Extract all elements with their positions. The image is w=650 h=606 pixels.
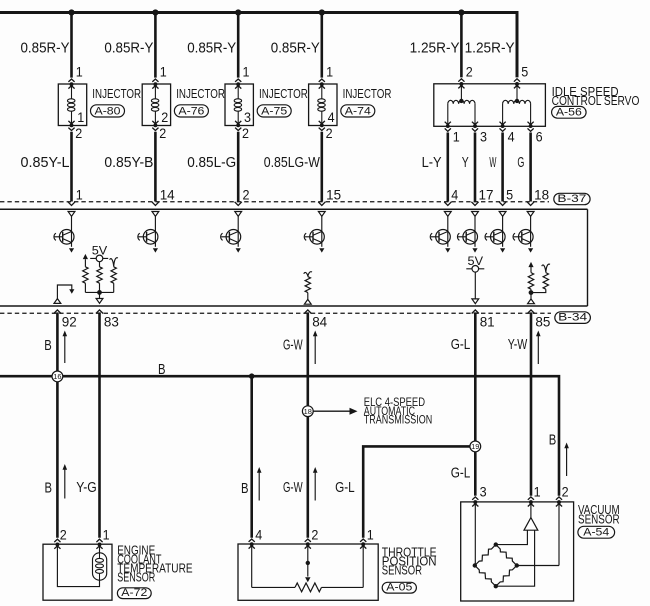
label G-L upper (451, 336, 471, 353)
pin 1 injector 4 top (326, 65, 333, 80)
wire 0.85R-Y to injector 4 (320, 13, 323, 78)
servo pin 2 entry (458, 79, 464, 103)
resistor bridge bottom-right (496, 566, 517, 587)
wire 0.85L-G injector 3 to ECU (237, 132, 240, 202)
label ELC 4-SPEED AUTOMATIC TRANSMISSION (364, 397, 432, 426)
pin 84 B-34 (312, 314, 327, 329)
pin 3 vacuum label (480, 484, 487, 499)
svg-text:A-76: A-76 (178, 105, 204, 117)
thermistor coil (96, 553, 104, 580)
svg-text:0.85R-Y: 0.85R-Y (187, 39, 236, 56)
engine coolant temperature sensor A-72 box (43, 544, 112, 600)
servo bottom pin exit x=530.6 (528, 122, 534, 132)
wire B to TPS pin 4 (250, 376, 253, 538)
label 0.85Y-B (104, 154, 153, 171)
resistor R4 (pin 84) (305, 277, 310, 300)
wire TPS internal right (322, 546, 364, 588)
B-37 pin arrow 8 (527, 202, 534, 206)
label INJECTOR 1 (92, 86, 141, 101)
wire W servo to ECU (501, 133, 504, 202)
ECU box top edge (0, 208, 588, 210)
wire Y-W pin 85 to vacuum sensor (530, 312, 533, 495)
connector row B-37 dashed line (0, 201, 549, 203)
node resistor pair junction (529, 290, 534, 295)
continuation arrow above R5 (528, 262, 533, 267)
label W (489, 154, 496, 171)
node bus junction 3 (235, 9, 241, 15)
connector ref A-56 (552, 106, 587, 118)
pin 2 TPS label (311, 528, 318, 543)
injector coil L2 (151, 99, 159, 111)
wire G-L junction19 to TPS pin 1 (363, 446, 470, 537)
svg-text:1: 1 (367, 528, 374, 543)
transistor Q1 (54, 216, 74, 252)
svg-text:A-54: A-54 (583, 527, 609, 539)
transistor Q7 (485, 216, 505, 252)
svg-text:1: 1 (326, 65, 333, 80)
svg-text:SENSOR: SENSOR (117, 571, 155, 585)
ECU box right edge (587, 209, 589, 306)
svg-text:1: 1 (453, 129, 460, 144)
wire B ground bus horizontal (0, 376, 559, 496)
svg-text:G-L: G-L (451, 465, 471, 482)
svg-text:6: 6 (536, 129, 543, 144)
svg-text:84: 84 (312, 314, 327, 329)
wire 5V to pin 81 (474, 272, 476, 299)
wire B pin 92 to junction 16 (56, 312, 59, 371)
svg-text:B-37: B-37 (557, 193, 586, 205)
svg-text:18: 18 (534, 188, 549, 203)
arrow up beside G-W (313, 331, 318, 365)
pin 4 TPS label (255, 528, 262, 543)
wire amp input left to bridge top (496, 530, 528, 544)
label 0.85Y-L (21, 154, 70, 171)
connector ref A-74 (341, 105, 375, 118)
svg-text:85: 85 (535, 314, 550, 329)
node bus junction 4 (319, 9, 325, 15)
pin 2 servo top (466, 65, 473, 80)
svg-text:5V: 5V (92, 246, 108, 258)
wire G-W junction18 to TPS pin 2 (306, 416, 309, 537)
label INJECTOR 3 (259, 86, 308, 101)
pin 4 injector cylinder no. (328, 110, 335, 125)
TPS pin 4 entry (249, 539, 255, 549)
pin 4 B-37 (451, 188, 458, 203)
pin 2 ECT label (60, 528, 67, 543)
vacuum pin 3 entry (472, 497, 478, 507)
svg-text:G-W: G-W (283, 337, 303, 354)
ECT pin 1 entry (96, 539, 102, 549)
svg-text:INJECTOR: INJECTOR (259, 86, 308, 101)
node bridge left (473, 563, 477, 567)
wire Y-G pin 83 down (98, 312, 101, 537)
node junction 18 (302, 406, 313, 417)
svg-text:17: 17 (479, 188, 494, 203)
pin 17 B-37 (479, 188, 494, 203)
B-37 pin arrow 7 (499, 202, 506, 206)
node junction dot TPS ground (249, 373, 255, 379)
wire G-L junction19 to vacuum pin 3 (474, 452, 477, 496)
pin 1 B-37 (76, 188, 83, 203)
svg-text:2: 2 (311, 528, 318, 543)
resistor bridge bottom-left (475, 566, 496, 587)
B-34 pin arrow 92 (54, 310, 61, 314)
pin 1 injector 1 top (76, 65, 83, 80)
svg-text:2: 2 (60, 528, 67, 543)
resistor TPS track (295, 583, 322, 592)
svg-text:1: 1 (103, 528, 110, 543)
pin 5 servo top (521, 65, 528, 80)
svg-text:B: B (549, 432, 557, 449)
label B (ground bus) (158, 361, 166, 378)
label INJECTOR 4 (343, 86, 392, 101)
svg-text:0.85R-Y: 0.85R-Y (104, 39, 153, 56)
B-34 pin arrow 85 (527, 310, 534, 314)
pin 2 injector 2 bottom (159, 126, 166, 141)
svg-text:0.85R-Y: 0.85R-Y (271, 39, 320, 56)
vacuum sensor A-54 box (461, 502, 574, 601)
label CONTROL SERVO (552, 93, 640, 108)
svg-text:15: 15 (326, 188, 341, 203)
svg-text:5: 5 (521, 65, 528, 80)
label G-W lower (283, 479, 303, 496)
label 0.85R-Y 2 (104, 39, 153, 56)
connector ref A-75 (257, 105, 291, 118)
svg-text:19: 19 (471, 442, 479, 451)
vacuum pin 2 entry (556, 497, 562, 507)
node junction 19 (470, 441, 481, 452)
arrow up beside B vacuum (564, 443, 569, 477)
svg-text:A-80: A-80 (95, 105, 121, 117)
ECU input triangle 7 (499, 212, 506, 217)
pin 92 B-34 (62, 314, 77, 329)
wire amp input right to bridge bottom (496, 530, 535, 586)
B-37 pin arrow 1 (68, 202, 75, 206)
wire 1.25R-Y to servo pin 2 (460, 13, 463, 78)
transistor Q6 (457, 216, 477, 252)
continuation hook above R4 (304, 272, 312, 277)
pin 2 injector 4 bottom (326, 126, 333, 141)
label VACUUM SENSOR (578, 503, 620, 526)
svg-text:4: 4 (328, 110, 335, 125)
svg-text:INJECTOR: INJECTOR (176, 86, 225, 101)
ECU input triangle 1 (68, 212, 75, 217)
svg-text:1: 1 (76, 188, 83, 203)
wire L-Y servo to ECU (446, 133, 449, 202)
continuation hook above R6 (542, 264, 550, 272)
label G (517, 154, 524, 171)
arrow ELC (350, 408, 358, 415)
ECU input triangle 2 (152, 212, 159, 217)
svg-text:A-72: A-72 (121, 587, 147, 599)
svg-text:G: G (517, 154, 524, 171)
pin 2 injector 3 bottom (242, 126, 249, 141)
wire internal ground L pin 92 (57, 285, 71, 299)
label B (pin 92 wire) (44, 337, 52, 354)
svg-text:G-L: G-L (335, 479, 355, 496)
ECU input triangle 6 (472, 212, 479, 217)
svg-text:4: 4 (451, 188, 458, 203)
B-37 pin arrow 3 (235, 202, 242, 206)
wire 0.85R-Y to injector 2 (154, 13, 157, 78)
label INJECTOR 2 (176, 86, 225, 101)
svg-text:1.25R-Y: 1.25R-Y (465, 39, 515, 56)
svg-text:Y-W: Y-W (508, 336, 528, 353)
pin 1 vacuum label (534, 484, 541, 499)
op-amp U1 (vacuum sensor amplifier) (524, 504, 538, 531)
pin 2 injector 1 bottom (75, 126, 82, 141)
node bus junction 2 (152, 9, 158, 15)
pin 15 B-37 (326, 188, 341, 203)
wire to ELC transmission (313, 410, 351, 412)
arrow up beside B wire (63, 331, 68, 364)
arrow up TPS G-W (313, 467, 318, 501)
svg-text:A-56: A-56 (556, 107, 582, 119)
node bus junction servo (458, 9, 464, 15)
connector ref B-37 (554, 193, 590, 205)
pin 85 B-34 (535, 314, 550, 329)
label 1.25R-Y right (465, 39, 515, 56)
ECU triangle pin 84 (304, 299, 311, 304)
pin 1 injector 3 top (243, 65, 250, 80)
label L-Y (422, 154, 442, 171)
pin 1 ECT label (103, 528, 110, 543)
wire 0.85Y-L injector 1 to ECU (70, 132, 73, 202)
svg-text:18: 18 (304, 407, 312, 416)
B-37 pin arrow 5 (444, 202, 451, 206)
node bridge top (494, 542, 498, 546)
pin 2 injector cylinder no. (161, 110, 168, 125)
transistor Q3 (221, 216, 241, 252)
svg-text:B: B (44, 337, 52, 354)
svg-text:16: 16 (53, 372, 61, 381)
label Y-W (508, 336, 528, 353)
B-34 pin arrow 83 (96, 310, 103, 314)
resistor bridge top-left (475, 545, 496, 566)
injector coil L3 (234, 99, 242, 111)
label 1.25R-Y left (410, 39, 460, 56)
pin 18 B-37 (534, 188, 549, 203)
svg-text:2: 2 (75, 126, 82, 141)
vacuum pin 1 entry (528, 497, 534, 507)
svg-text:0.85LG-W: 0.85LG-W (264, 154, 321, 171)
injector coil L4 (318, 99, 326, 111)
svg-text:G-L: G-L (451, 336, 471, 353)
pin 1 injector cylinder no. (77, 110, 84, 125)
label B (TPS) (241, 480, 249, 497)
servo bottom pin exit x=502.6 (500, 122, 506, 132)
wire G-L pin 81 to junction 19 (474, 312, 477, 441)
wire power bus (battery feed) (0, 13, 517, 78)
svg-text:5: 5 (506, 188, 513, 203)
label G-W upper (283, 337, 303, 354)
arrow up ECT B (63, 464, 68, 499)
ECU input triangle 5 (444, 212, 451, 217)
pin 1 servo bottom (453, 129, 460, 144)
wire 0.85R-Y to injector 1 (70, 13, 73, 78)
connector ref A-54 (578, 526, 615, 538)
wire B junction16 to ECT sensor (56, 382, 59, 538)
svg-text:Y-G: Y-G (76, 479, 97, 496)
label B (vacuum) (549, 432, 557, 449)
svg-text:1: 1 (243, 65, 250, 80)
injector A-76 (142, 79, 170, 131)
wire TPS internal left (252, 546, 295, 588)
svg-text:1: 1 (77, 110, 84, 125)
TPS pin 2 entry (305, 539, 311, 549)
svg-text:2: 2 (326, 126, 333, 141)
connector ref A-72 (117, 587, 151, 599)
pin 1 TPS label (367, 528, 374, 543)
pin 83 B-34 (104, 314, 119, 329)
B-37 pin arrow 4 (318, 202, 325, 206)
servo coil 1 (448, 100, 475, 124)
wire 0.85Y-B injector 2 to ECU (154, 132, 157, 202)
svg-text:TRANSMISSION: TRANSMISSION (364, 415, 432, 427)
svg-text:2: 2 (562, 484, 569, 499)
svg-text:0.85Y-B: 0.85Y-B (104, 154, 153, 171)
resistor R6 (pin 85 right) (531, 273, 549, 293)
svg-text:2: 2 (161, 110, 168, 125)
servo bottom pin exit x=475.0 (472, 122, 478, 132)
node bus junction 1 (68, 9, 74, 15)
thermistor capsule (93, 553, 107, 580)
svg-text:2: 2 (243, 188, 250, 203)
resistor R3 (right) (111, 267, 116, 283)
node bridge bottom (494, 584, 498, 588)
svg-text:L-Y: L-Y (422, 154, 442, 171)
label G-L (vacuum) (451, 465, 471, 482)
svg-text:G-W: G-W (283, 479, 303, 496)
pin 3 injector cylinder no. (244, 110, 251, 125)
svg-text:A-05: A-05 (386, 581, 412, 593)
transistor Q5 (430, 216, 450, 252)
svg-text:3: 3 (480, 484, 487, 499)
ECU output triangle pin 92 (54, 299, 61, 304)
B-37 pin arrow 2 (152, 202, 159, 206)
ECU output triangle pin 83 (96, 299, 103, 304)
svg-text:0.85Y-L: 0.85Y-L (21, 154, 70, 171)
B-37 pin arrow 6 (471, 202, 478, 206)
label G-L lower (335, 479, 355, 496)
throttle position sensor A-05 box (238, 544, 378, 600)
svg-text:W: W (489, 154, 496, 171)
servo coil 2 (503, 100, 531, 124)
label Y (462, 154, 469, 171)
injector A-75 (225, 79, 253, 131)
svg-text:1: 1 (76, 65, 83, 80)
arrow up beside Y-W (536, 331, 541, 365)
svg-text:3: 3 (244, 110, 251, 125)
ECU input triangle 4 (318, 212, 325, 217)
transistor Q2 (138, 216, 158, 252)
transistor Q4 (304, 216, 324, 252)
wire TPS wiper (306, 546, 310, 577)
wire Y servo to ECU (474, 133, 477, 202)
svg-text:1: 1 (160, 65, 167, 80)
resistor R5 (pin 85 left) (528, 266, 533, 299)
svg-text:Y: Y (462, 154, 469, 171)
TPS pin 1 entry (360, 539, 366, 549)
svg-text:INJECTOR: INJECTOR (343, 86, 392, 101)
node resistor trio junction (97, 290, 102, 295)
label 0.85R-Y 3 (187, 39, 236, 56)
ECT pin 2 entry (54, 539, 60, 549)
connector ref A-80 (91, 105, 125, 118)
svg-text:2: 2 (159, 126, 166, 141)
arrow TPS wiper (305, 577, 310, 582)
wire G servo to ECU (529, 133, 532, 202)
power symbol 5V right (466, 256, 484, 272)
ECU triangle pin 85 (528, 299, 535, 304)
svg-text:4: 4 (255, 528, 262, 543)
svg-text:2: 2 (466, 65, 473, 80)
label 0.85LG-W (264, 154, 321, 171)
wire ECT internal (57, 546, 99, 587)
ECU input triangle 3 (235, 212, 242, 217)
svg-text:4: 4 (508, 129, 515, 144)
resistor R2 (5V middle) (97, 262, 102, 284)
ECU triangle pin 81 (472, 299, 479, 304)
svg-text:B: B (241, 480, 249, 497)
svg-text:INJECTOR: INJECTOR (92, 86, 141, 101)
svg-text:B: B (158, 361, 166, 378)
label THROTTLE POSITION SENSOR (382, 545, 437, 577)
resistor bridge top-right (496, 545, 517, 566)
wire 0.85LG-W injector 4 to ECU (320, 132, 323, 202)
transistor Q8 (513, 216, 533, 252)
label Y-G (76, 479, 97, 496)
node bridge right (515, 563, 519, 567)
svg-text:92: 92 (62, 314, 77, 329)
power symbol 5V left (90, 246, 108, 262)
pin 2 vacuum label (562, 484, 569, 499)
connector ref A-76 (174, 105, 208, 118)
svg-text:SENSOR: SENSOR (382, 564, 422, 578)
label IDLE SPEED (552, 84, 619, 99)
svg-text:0.85R-Y: 0.85R-Y (21, 39, 70, 56)
svg-text:0.85L-G: 0.85L-G (187, 154, 236, 171)
wire vacuum pin 3 to bridge left (474, 504, 476, 566)
pin 5 B-37 (506, 188, 513, 203)
svg-text:2: 2 (242, 126, 249, 141)
pin 14 B-37 (160, 188, 175, 203)
injector A-80 (58, 79, 86, 131)
injector A-74 (309, 79, 337, 131)
resistor R1 (pull-up left) (83, 259, 88, 283)
svg-text:A-75: A-75 (261, 105, 287, 117)
svg-text:3: 3 (480, 129, 487, 144)
continuation arrow down (ground) (69, 289, 74, 294)
svg-text:A-74: A-74 (345, 105, 371, 117)
svg-text:14: 14 (160, 188, 175, 203)
label 0.85R-Y 1 (21, 39, 70, 56)
pin 2 B-37 (243, 188, 250, 203)
label B (ECT) (45, 479, 53, 496)
pin 6 servo bottom (536, 129, 543, 144)
servo bottom pin exit x=447.8 (445, 122, 451, 132)
pin 81 B-34 (480, 314, 495, 329)
pin 4 servo bottom (508, 129, 515, 144)
connector ref B-34 (555, 312, 591, 324)
B-34 pin arrow 81 (472, 310, 479, 314)
connector ref A-05 (382, 581, 416, 593)
svg-text:5V: 5V (468, 256, 484, 268)
node junction 16 (52, 371, 63, 382)
pin 3 servo bottom (480, 129, 487, 144)
pin 1 injector 2 top (160, 65, 167, 80)
label 0.85L-G (187, 154, 236, 171)
